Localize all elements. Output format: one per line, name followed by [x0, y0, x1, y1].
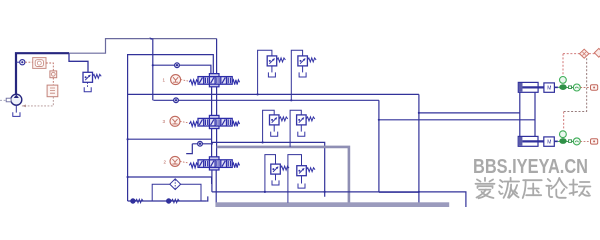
load check line section 3 [186, 144, 192, 154]
work line B1 with section 2 feed [153, 99, 379, 101]
summing junction 2 [594, 48, 600, 57]
velocity sensor S2 [560, 131, 567, 144]
signal scope box [47, 85, 58, 97]
A1 branch to cylinder port [419, 112, 520, 114]
hydraulic cylinder C1 [518, 82, 544, 92]
svg-text:M: M [547, 86, 551, 92]
P header drop to valve 1 [216, 39, 218, 77]
relief 2A riser [263, 110, 275, 142]
pilot check line [128, 200, 207, 202]
valve3 outlet pair [211, 170, 213, 192]
relief 1B riser [291, 50, 302, 100]
carry-over pair valve2-valve3 [211, 129, 213, 157]
B1 branch to cylinder port [379, 119, 535, 121]
relief valve R2A [270, 115, 288, 125]
work line B2 (light) [217, 147, 349, 203]
pump shaft dashed stub [0, 99, 6, 101]
dashed link [52, 78, 54, 85]
link S1 [569, 86, 572, 89]
junction dots [290, 99, 292, 101]
load mass C2 [544, 137, 558, 146]
check valve section 3 [198, 141, 203, 146]
wire pump to P header [69, 39, 217, 54]
velocity sensor S1 [560, 77, 567, 90]
work line A2 [212, 142, 325, 196]
P rail for load checks [152, 39, 154, 101]
relief valve R1A [267, 56, 285, 66]
tank gray band [215, 202, 449, 207]
directional valve V2 [189, 115, 239, 128]
pilot check A [131, 199, 136, 204]
pump supply wire [16, 53, 69, 95]
main relief pilot dash [87, 82, 89, 87]
pump [6, 94, 22, 105]
svg-text:M: M [547, 140, 551, 146]
main relief tank [84, 87, 91, 92]
carry-over pair valve1-valve2 [211, 84, 213, 116]
pump tank [13, 112, 20, 116]
sensor dial S1 [573, 84, 580, 91]
pilot line end hook [206, 196, 208, 201]
pilot check B [166, 199, 171, 204]
relief 3B riser [288, 155, 302, 203]
B1 drop [378, 100, 380, 192]
relief valve R1B [298, 56, 316, 66]
cylinder riser A [519, 92, 521, 136]
manual lever control 1 [163, 75, 190, 85]
tank/return rail left edge [128, 55, 214, 201]
summing junction 1 [580, 49, 589, 58]
filter loop [152, 184, 170, 201]
check valve section 2 [174, 98, 179, 103]
pressure gauge display [33, 58, 46, 69]
junction arrow [149, 37, 152, 40]
load check line section 1 [153, 65, 211, 76]
filter [170, 179, 181, 190]
relief 1A riser [258, 50, 272, 94]
hydraulic cylinder C2 [518, 136, 544, 146]
link S2 [569, 140, 572, 143]
cylinder 2 rod link [558, 140, 560, 142]
A1 drop to cylinders [418, 94, 420, 205]
load mass C1 [544, 83, 558, 92]
directional valve V3 [189, 157, 239, 170]
work line A1 [128, 93, 419, 95]
relief 2B riser [290, 110, 301, 147]
B1 joins tank bus [379, 191, 419, 193]
cylinder riser B [534, 92, 536, 136]
tank bus [212, 192, 466, 207]
check valve section 1 [175, 63, 180, 68]
relief valve R3A [271, 164, 289, 174]
dashed link [46, 63, 53, 71]
signal box S2 [580, 140, 590, 142]
cylinder 1 rod link [558, 86, 560, 88]
relief valve main R0 [83, 72, 101, 82]
relief valve R3B [297, 166, 315, 176]
feedback dash net [563, 54, 595, 131]
signal gauge 2 [50, 71, 57, 78]
dashed link to gauge [25, 61, 33, 63]
pump tank line [15, 105, 17, 112]
pressure sensor tap [16, 61, 19, 63]
dashed link to pump [22, 97, 53, 106]
relief 3A riser [265, 155, 276, 192]
svg-text:BBS.IYEYA.CN: BBS.IYEYA.CN [473, 156, 588, 178]
sensor dial S2 [573, 138, 580, 145]
wire to main relief valve [69, 53, 88, 72]
branch to valve 3 return [128, 177, 212, 184]
signal box S1 [580, 87, 590, 89]
relief valve R2B [297, 115, 315, 125]
manual lever control 2 [164, 156, 189, 166]
manual lever control 3 [163, 116, 189, 126]
directional valve V1 [189, 74, 239, 87]
watermark chinese characters [476, 178, 591, 199]
branch to valve 3 inlet [128, 138, 212, 140]
